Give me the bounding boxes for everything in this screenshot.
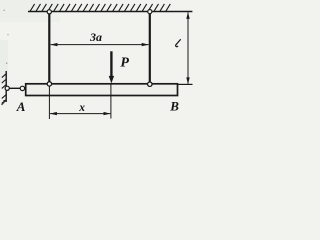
ceiling line — [28, 11, 192, 13]
rod 1 (left) — [48, 13, 50, 83]
svg-text:x: x — [78, 102, 85, 114]
ceiling hatching — [30, 4, 170, 11]
wall line — [5, 71, 7, 102]
x dim extension right — [110, 84, 112, 119]
3a arrowhead right — [142, 43, 149, 46]
x dim extension left — [48, 85, 50, 119]
paper background — [0, 0, 197, 125]
beam bar — [26, 84, 178, 96]
junction dot left — [47, 82, 51, 86]
speck — [6, 63, 7, 64]
dimension 3a line — [51, 44, 149, 46]
3a arrowhead left — [50, 43, 57, 46]
x arrowhead right — [104, 112, 111, 115]
load P shaft — [110, 51, 112, 78]
l dimension line — [187, 13, 189, 84]
x dimension line — [50, 113, 110, 115]
speck — [7, 34, 8, 35]
wall hatching — [2, 74, 7, 104]
svg-text:B: B — [169, 99, 179, 114]
beam pin A — [20, 86, 24, 90]
speck — [3, 10, 4, 11]
l arrowhead top — [186, 12, 189, 19]
link bar A — [9, 87, 21, 89]
ceiling pin left — [47, 10, 51, 14]
junction dot right — [148, 82, 152, 86]
ceiling pin right — [148, 10, 152, 14]
l arrowhead bottom — [186, 77, 189, 84]
beam top extension right — [178, 83, 193, 85]
label l (rotated) — [176, 40, 181, 47]
stray mark bottom-left — [2, 100, 6, 105]
svg-text:P: P — [120, 55, 129, 70]
rod 2 (right) — [149, 13, 151, 83]
faint scan patches — [0, 0, 60, 22]
x arrowhead left — [50, 112, 57, 115]
svg-text:A: A — [16, 99, 26, 114]
wall pin — [5, 86, 9, 90]
svg-text:3a: 3a — [89, 30, 102, 44]
P arrowhead — [109, 76, 114, 84]
